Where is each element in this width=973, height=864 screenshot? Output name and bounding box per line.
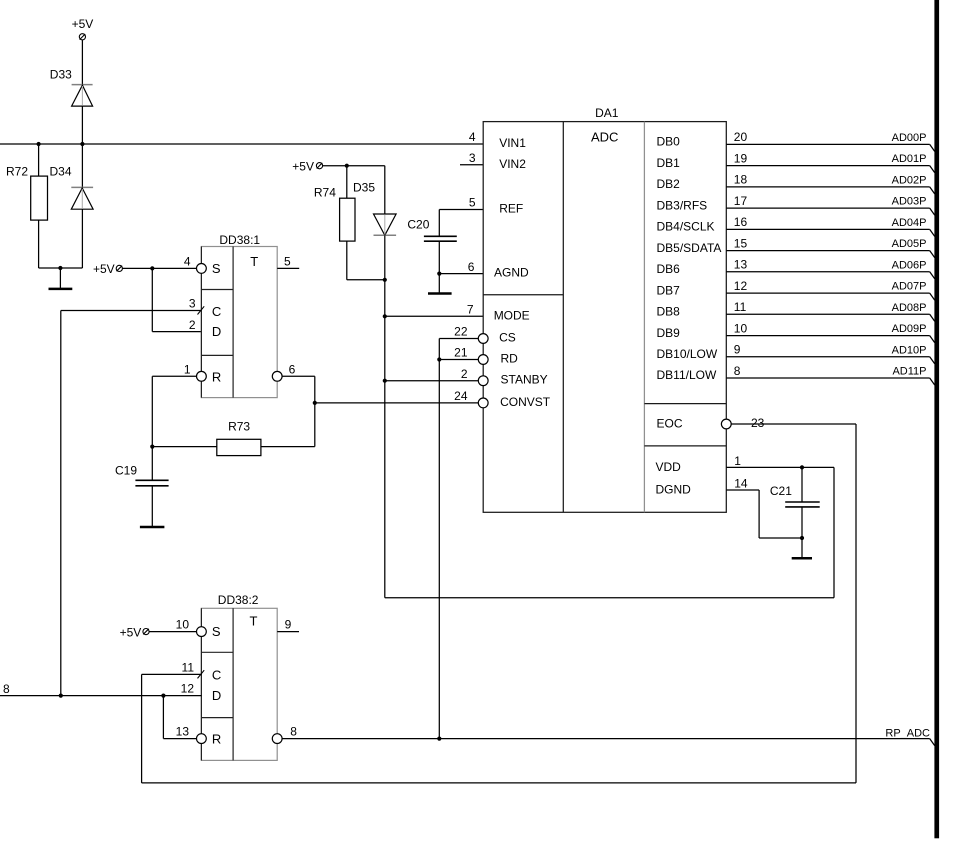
svg-text:12: 12: [734, 279, 748, 293]
pin CS (22) bubble: [478, 334, 488, 344]
wire C input pin 3 of DD38:1: [61, 310, 202, 312]
svg-text:14: 14: [734, 477, 748, 491]
svg-text:20: 20: [734, 130, 748, 144]
svg-text:AD01P: AD01P: [892, 153, 927, 165]
svg-text:R73: R73: [228, 420, 250, 434]
node junction D33/D34/main: [80, 142, 84, 146]
wire CS pin 22: [439, 338, 478, 340]
svg-text:10: 10: [176, 618, 190, 632]
svg-text:18: 18: [734, 173, 748, 187]
svg-text:DB4/SCLK: DB4/SCLK: [657, 220, 715, 234]
svg-text:C19: C19: [115, 464, 137, 478]
svg-text:RP_ADC: RP_ADC: [885, 728, 930, 740]
pin 3 clock marker C: [198, 306, 205, 314]
svg-text:4: 4: [469, 130, 476, 144]
svg-text:RD: RD: [501, 352, 519, 366]
node junction RD: [437, 357, 441, 361]
svg-text:+5V: +5V: [120, 626, 142, 640]
wire REF pin 5: [439, 209, 483, 211]
node junction DGND/C21: [800, 536, 804, 540]
svg-text:22: 22: [454, 325, 468, 339]
wire main horizontal net to VIN1: [0, 143, 483, 145]
node junction R74/D35: [383, 278, 387, 282]
svg-text:DD38:2: DD38:2: [218, 593, 259, 607]
svg-text:4: 4: [184, 255, 191, 269]
svg-text:24: 24: [454, 389, 468, 403]
svg-text:S: S: [212, 261, 221, 276]
svg-text:DGND: DGND: [656, 483, 692, 497]
node junction STANBY: [383, 379, 387, 383]
node junction pin6/CONVST: [313, 401, 317, 405]
svg-text:DB1: DB1: [657, 156, 681, 170]
node junction R73/C19/R-input: [150, 445, 154, 449]
svg-text:8: 8: [290, 725, 297, 739]
svg-text:DB3/RFS: DB3/RFS: [657, 198, 708, 212]
wire bottom rail to VDD riser: [385, 597, 834, 599]
svg-text:R: R: [212, 369, 221, 384]
pin 10 bubble S: [197, 627, 207, 637]
svg-text:C21: C21: [770, 484, 792, 498]
svg-text:ADC: ADC: [591, 130, 618, 145]
wire pin 8 output to RP_ADC: [282, 738, 930, 740]
svg-text:DB11/LOW: DB11/LOW: [657, 368, 717, 382]
pin 13 bubble R: [197, 734, 207, 744]
svg-text:3: 3: [469, 151, 476, 165]
svg-text:AD02P: AD02P: [892, 175, 927, 187]
wire +5V to R74/D35: [323, 165, 385, 167]
svg-text:DA1: DA1: [595, 106, 619, 120]
node junction D/R riser: [161, 694, 165, 698]
node junction MODE: [383, 314, 387, 318]
wire +5V to D33 cathode: [81, 40, 83, 84]
wire +5V down to D input pin 2: [151, 268, 153, 331]
pin STANBY (2) bubble: [478, 376, 488, 386]
wire RD pin 21: [439, 359, 478, 361]
pin 1 bubble R: [197, 371, 207, 381]
svg-text:19: 19: [734, 151, 748, 165]
svg-text:DB2: DB2: [657, 177, 681, 191]
svg-text:AD04P: AD04P: [892, 217, 927, 229]
svg-text:AD06P: AD06P: [892, 259, 927, 271]
node junction R72/main: [37, 142, 41, 146]
svg-text:C: C: [212, 304, 221, 319]
pin CONVST (24) bubble: [478, 398, 488, 408]
pin 8 bubble output: [272, 734, 282, 744]
svg-text:AD09P: AD09P: [892, 323, 927, 335]
svg-text:6: 6: [289, 362, 296, 376]
wire MODE pin 7: [385, 315, 483, 317]
svg-text:AD08P: AD08P: [892, 302, 927, 314]
node junction R74 top: [345, 164, 349, 168]
ground below R72/D34: [59, 268, 61, 289]
wire EOC to bottom net: [731, 423, 856, 425]
ground below C21: [801, 538, 803, 558]
node junction net8/C riser: [59, 694, 63, 698]
svg-text:10: 10: [734, 321, 748, 335]
svg-text:REF: REF: [499, 202, 523, 216]
svg-text:VIN1: VIN1: [499, 136, 526, 150]
svg-text:AGND: AGND: [494, 266, 529, 280]
svg-text:13: 13: [734, 258, 748, 272]
svg-text:STANBY: STANBY: [501, 373, 548, 387]
bus bar: [934, 0, 939, 838]
svg-text:CS: CS: [499, 331, 516, 345]
svg-text:3: 3: [189, 297, 196, 311]
wire D33 anode to main net: [81, 106, 83, 144]
wire +5V to S pin 4: [123, 267, 197, 269]
ground below C20: [438, 274, 440, 294]
svg-text:R72: R72: [6, 165, 28, 179]
wire vertical C input to net 8: [60, 311, 62, 696]
svg-text:D: D: [212, 688, 221, 703]
svg-text:+5V: +5V: [72, 17, 94, 31]
pin 6 bubble output: [272, 371, 282, 381]
svg-text:R: R: [212, 732, 221, 747]
svg-text:23: 23: [751, 416, 765, 430]
wire VDD to +5V rail: [726, 466, 834, 468]
svg-text:2: 2: [189, 318, 196, 332]
svg-text:T: T: [250, 613, 258, 628]
svg-text:DD38:1: DD38:1: [219, 233, 260, 247]
wire net 8 to D input pin 12: [0, 695, 201, 697]
svg-text:13: 13: [176, 725, 190, 739]
svg-text:AD10P: AD10P: [892, 344, 927, 356]
wire VDD riser: [833, 467, 835, 597]
wire R input pin 1 of DD38:1: [152, 375, 196, 377]
node junction +5V/D feed: [150, 266, 154, 270]
svg-text:2: 2: [461, 367, 468, 381]
svg-text:S: S: [212, 624, 221, 639]
wire +5V to S pin 10: [149, 631, 196, 633]
wire R74 bottom to D35 node: [347, 279, 385, 281]
wire VIN2 pin 3 stub: [460, 164, 483, 166]
svg-text:AD07P: AD07P: [892, 281, 927, 293]
pin RD (21) bubble: [478, 355, 488, 365]
svg-text:T: T: [250, 254, 258, 269]
svg-text:D34: D34: [50, 165, 72, 179]
svg-text:AD11P: AD11P: [892, 366, 926, 378]
pin 11 clock marker C: [198, 670, 205, 678]
pin EOC (23) bubble: [721, 419, 731, 429]
svg-text:+5V: +5V: [292, 160, 314, 174]
svg-text:15: 15: [734, 236, 748, 250]
svg-text:5: 5: [284, 255, 291, 269]
svg-text:16: 16: [734, 215, 748, 229]
svg-text:D33: D33: [50, 68, 72, 82]
pin 4 bubble S: [197, 264, 207, 274]
svg-text:5: 5: [469, 196, 476, 210]
svg-text:21: 21: [454, 346, 468, 360]
svg-text:+5V: +5V: [93, 262, 115, 276]
svg-text:12: 12: [181, 682, 195, 696]
svg-text:8: 8: [3, 682, 10, 696]
svg-text:11: 11: [734, 300, 747, 314]
ground below C19: [140, 526, 165, 529]
svg-text:C: C: [212, 667, 221, 682]
svg-text:DB5/SDATA: DB5/SDATA: [657, 241, 722, 255]
svg-text:AD00P: AD00P: [892, 132, 927, 144]
svg-text:DB6: DB6: [657, 262, 681, 276]
node junction C20/AGND: [437, 272, 441, 276]
svg-text:8: 8: [734, 364, 741, 378]
svg-text:DB8: DB8: [657, 305, 681, 319]
svg-text:1: 1: [184, 362, 191, 376]
wire AGND pin 6: [439, 273, 483, 275]
svg-text:DB0: DB0: [657, 135, 681, 149]
svg-text:D: D: [212, 324, 221, 339]
svg-text:AD03P: AD03P: [892, 196, 927, 208]
wire R72/D34 bottom: [39, 267, 83, 269]
svg-text:EOC: EOC: [657, 417, 683, 431]
svg-text:11: 11: [182, 661, 195, 675]
svg-text:DB7: DB7: [657, 283, 681, 297]
svg-text:6: 6: [468, 260, 475, 274]
svg-text:9: 9: [734, 343, 741, 357]
node junction pin8/CS riser: [437, 737, 441, 741]
node junction ground R72/D34: [58, 266, 62, 270]
wire pin 6 to CONVST/R73: [282, 375, 315, 377]
wire C input pin 11: [142, 673, 202, 675]
node junction VDD/C21: [800, 465, 804, 469]
svg-text:VDD: VDD: [656, 460, 682, 474]
wire CONVST pin 24: [315, 402, 479, 404]
svg-text:17: 17: [734, 194, 748, 208]
wire STANBY pin 2: [385, 380, 479, 382]
svg-text:MODE: MODE: [494, 308, 530, 322]
svg-text:C20: C20: [407, 217, 429, 231]
pin 9 output wire: [277, 631, 299, 633]
wire DGND to ground: [726, 489, 759, 491]
svg-text:7: 7: [467, 303, 474, 317]
wire D to R input pin 13: [162, 696, 164, 739]
svg-text:CONVST: CONVST: [500, 395, 551, 409]
svg-text:DB9: DB9: [657, 326, 681, 340]
wire bottom return to EOC: [142, 782, 856, 784]
svg-text:9: 9: [285, 618, 292, 632]
pin 5 output wire: [277, 267, 299, 269]
svg-text:VIN2: VIN2: [499, 157, 526, 171]
svg-text:AD05P: AD05P: [892, 238, 927, 250]
svg-text:D35: D35: [353, 181, 375, 195]
svg-text:1: 1: [734, 454, 741, 468]
svg-text:DB10/LOW: DB10/LOW: [657, 347, 718, 361]
wire +5V rail down to MODE/STANBY/VDD: [384, 280, 386, 598]
svg-text:R74: R74: [314, 186, 336, 200]
